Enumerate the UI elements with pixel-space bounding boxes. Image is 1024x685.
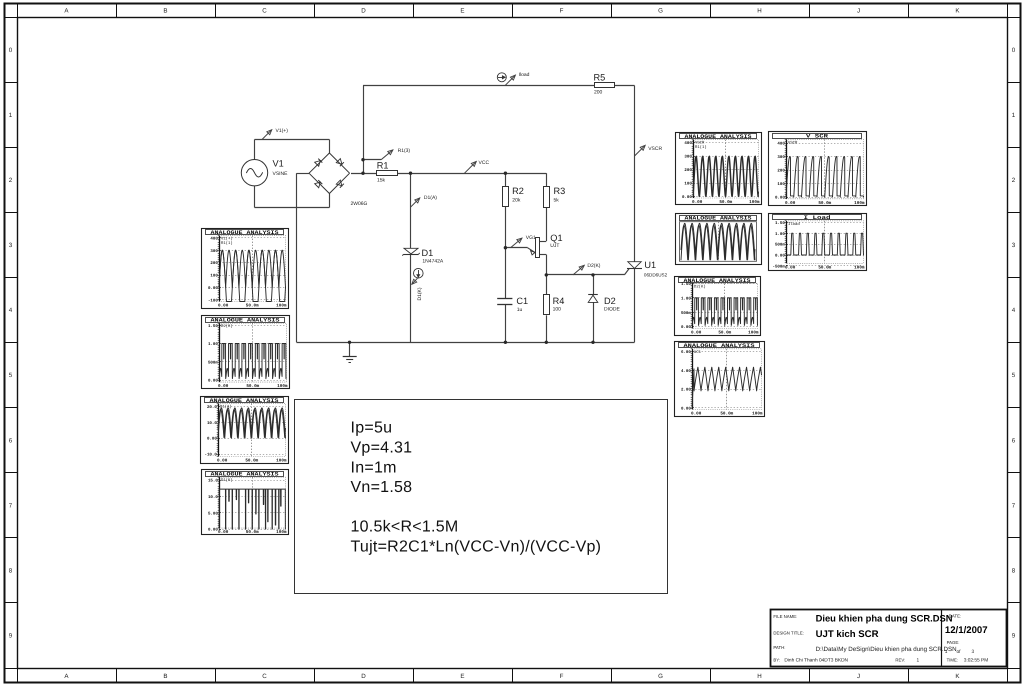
svg-text:-500m: -500m — [773, 265, 786, 270]
svg-text:0.00: 0.00 — [681, 406, 691, 411]
svg-text:Dieu khien pha dung SCR.DSN: Dieu khien pha dung SCR.DSN — [816, 613, 953, 624]
svg-text:100m: 100m — [752, 412, 763, 417]
svg-text:FILE NAME:: FILE NAME: — [773, 614, 797, 619]
svg-text:F: F — [560, 8, 564, 15]
svg-text:7: 7 — [1012, 502, 1016, 509]
svg-text:B: B — [163, 8, 167, 15]
svg-text:Iload: Iload — [788, 222, 800, 227]
svg-text:50.0m: 50.0m — [718, 331, 731, 336]
svg-text:100m: 100m — [277, 384, 288, 389]
svg-text:100m: 100m — [748, 331, 759, 336]
svg-text:100: 100 — [210, 274, 218, 279]
svg-text:9: 9 — [9, 633, 13, 640]
svg-text:ANALOGUE ANALYSIS: ANALOGUE ANALYSIS — [211, 230, 280, 236]
svg-text:50.0m: 50.0m — [246, 384, 259, 389]
svg-text:06DD6US2: 06DD6US2 — [644, 273, 668, 278]
svg-text:BY:: BY: — [773, 658, 780, 663]
svg-text:1.00: 1.00 — [681, 297, 691, 302]
svg-text:F: F — [560, 673, 564, 680]
svg-text:0.00: 0.00 — [692, 200, 703, 205]
svg-text:0.00: 0.00 — [218, 530, 229, 535]
svg-text:50.0m: 50.0m — [818, 265, 831, 270]
svg-text:400: 400 — [684, 141, 692, 146]
svg-text:U1: U1 — [644, 260, 656, 270]
svg-text:1: 1 — [917, 658, 920, 664]
svg-text:H: H — [757, 673, 761, 680]
svg-text:UJT: UJT — [550, 243, 559, 249]
svg-text:VSCR: VSCR — [788, 140, 798, 145]
svg-text:6.00: 6.00 — [681, 350, 691, 355]
svg-text:100m: 100m — [276, 304, 287, 309]
svg-text:G: G — [658, 673, 663, 680]
svg-text:In=1m: In=1m — [351, 459, 397, 476]
svg-text:-100: -100 — [208, 298, 218, 303]
svg-text:1.00: 1.00 — [208, 342, 218, 347]
svg-text:I Load: I Load — [804, 215, 831, 221]
svg-text:D2(K): D2(K) — [587, 263, 600, 269]
svg-text:G: G — [658, 8, 663, 15]
svg-text:0.00: 0.00 — [785, 265, 796, 270]
svg-text:2: 2 — [1012, 177, 1016, 184]
svg-text:1: 1 — [1012, 112, 1016, 119]
svg-text:100m: 100m — [276, 459, 287, 464]
svg-text:6: 6 — [1012, 437, 1016, 444]
svg-text:10.5k<R<1.5M: 10.5k<R<1.5M — [351, 519, 459, 536]
svg-text:100m: 100m — [749, 200, 760, 205]
svg-text:Iload: Iload — [519, 72, 530, 78]
svg-text:7: 7 — [9, 502, 13, 509]
svg-text:C: C — [262, 673, 267, 680]
svg-text:12/1/2007: 12/1/2007 — [945, 625, 988, 636]
svg-text:VSCR: VSCR — [648, 146, 662, 152]
svg-text:0: 0 — [1012, 47, 1016, 54]
svg-text:V1: V1 — [273, 159, 284, 169]
svg-text:1N4742A: 1N4742A — [422, 259, 444, 265]
svg-text:C1: C1 — [516, 296, 528, 306]
svg-text:0.00: 0.00 — [691, 412, 702, 417]
svg-text:D: D — [361, 8, 366, 15]
svg-text:50.0m: 50.0m — [245, 459, 258, 464]
svg-text:D2: D2 — [604, 296, 616, 306]
svg-text:3: 3 — [9, 242, 13, 249]
svg-text:Vp=4.31: Vp=4.31 — [351, 439, 413, 456]
svg-text:R1(1): R1(1) — [221, 241, 233, 246]
svg-text:VG1: VG1 — [526, 235, 536, 241]
svg-text:500m: 500m — [681, 311, 691, 316]
svg-text:0.00: 0.00 — [785, 201, 796, 206]
svg-text:Q1: Q1 — [550, 233, 562, 243]
svg-text:D1(K): D1(K) — [417, 287, 423, 300]
svg-text:0.00: 0.00 — [218, 384, 229, 389]
svg-text:5.00: 5.00 — [208, 511, 218, 516]
svg-text:4: 4 — [1012, 307, 1016, 314]
svg-text:2W06G: 2W06G — [351, 201, 368, 207]
svg-text:V1(+): V1(+) — [276, 128, 289, 134]
svg-text:2: 2 — [9, 177, 13, 184]
svg-text:9: 9 — [1012, 633, 1016, 640]
svg-text:Tujt=R2C1*Ln(VCC-Vn)/(VCC-Vp): Tujt=R2C1*Ln(VCC-Vn)/(VCC-Vp) — [351, 538, 602, 555]
svg-text:500m: 500m — [208, 360, 218, 365]
svg-text:300: 300 — [777, 155, 785, 160]
svg-text:DESIGN TITLE:: DESIGN TITLE: — [773, 630, 803, 635]
svg-text:J: J — [857, 8, 860, 15]
svg-text:R5: R5 — [594, 73, 606, 83]
svg-text:20k: 20k — [512, 198, 521, 204]
svg-text:D:\Data\My DeSign\Dieu khien p: D:\Data\My DeSign\Dieu khien pha dung SC… — [816, 646, 957, 653]
svg-text:H: H — [757, 8, 761, 15]
svg-text:0.00: 0.00 — [682, 195, 692, 200]
svg-text:1.50: 1.50 — [208, 324, 218, 329]
svg-text:D2(K): D2(K) — [694, 285, 706, 290]
svg-text:TIME:: TIME: — [947, 658, 958, 663]
svg-text:100: 100 — [684, 182, 692, 187]
svg-text:100m: 100m — [276, 530, 287, 535]
svg-text:3:02:55 PM: 3:02:55 PM — [964, 658, 989, 664]
svg-text:2.00: 2.00 — [681, 388, 691, 393]
svg-text:0.00: 0.00 — [208, 379, 218, 384]
svg-text:50.0m: 50.0m — [720, 412, 733, 417]
svg-text:0.00: 0.00 — [208, 528, 218, 533]
svg-text:ANALOGUE ANALYSIS: ANALOGUE ANALYSIS — [210, 398, 280, 404]
svg-text:5: 5 — [1012, 372, 1016, 379]
svg-text:6: 6 — [9, 437, 13, 444]
svg-text:0.00: 0.00 — [207, 437, 217, 442]
svg-text:50.0m: 50.0m — [719, 200, 732, 205]
svg-text:ANALOGUE ANALYSIS: ANALOGUE ANALYSIS — [685, 134, 753, 140]
svg-text:D2(K): D2(K) — [221, 324, 233, 329]
svg-text:200: 200 — [594, 89, 603, 95]
svg-text:0.00: 0.00 — [775, 196, 785, 201]
svg-text:of: of — [957, 649, 962, 655]
svg-text:0.00: 0.00 — [681, 325, 691, 330]
svg-text:VCC: VCC — [479, 160, 490, 166]
svg-text:V1(+): V1(+) — [221, 237, 233, 242]
svg-text:50.0m: 50.0m — [246, 530, 259, 535]
svg-text:0.00: 0.00 — [691, 331, 702, 336]
svg-text:15k: 15k — [377, 177, 386, 183]
svg-text:J: J — [857, 673, 860, 680]
svg-text:10.0: 10.0 — [208, 495, 218, 500]
svg-text:E: E — [460, 8, 464, 15]
svg-text:ANALOGUE ANALYSIS: ANALOGUE ANALYSIS — [211, 318, 281, 324]
svg-text:D1(A): D1(A) — [424, 195, 437, 201]
svg-text:1.50: 1.50 — [681, 282, 691, 287]
svg-text:VSCR: VSCR — [695, 141, 705, 146]
svg-text:15.0: 15.0 — [208, 479, 218, 484]
svg-text:E: E — [460, 673, 464, 680]
svg-text:R4: R4 — [553, 296, 565, 306]
svg-text:50.0m: 50.0m — [246, 304, 259, 309]
svg-text:100m: 100m — [854, 265, 865, 270]
svg-text:1.00: 1.00 — [775, 232, 785, 237]
svg-text:R1: R1 — [377, 161, 389, 171]
svg-text:R1(1): R1(1) — [695, 145, 707, 150]
svg-text:-10.0: -10.0 — [205, 453, 218, 458]
svg-text:300: 300 — [210, 249, 218, 254]
svg-text:200: 200 — [777, 169, 785, 174]
svg-text:D1(K): D1(K) — [221, 478, 233, 483]
svg-text:3: 3 — [972, 649, 975, 655]
svg-text:ANALOGUE ANALYSIS: ANALOGUE ANALYSIS — [684, 278, 752, 284]
svg-text:500m: 500m — [775, 243, 785, 248]
svg-text:R2: R2 — [512, 186, 524, 196]
svg-text:4.00: 4.00 — [681, 369, 691, 374]
svg-text:ANALOGUE ANALYSIS: ANALOGUE ANALYSIS — [685, 216, 753, 222]
svg-text:10.0: 10.0 — [207, 421, 217, 426]
svg-text:3: 3 — [1012, 242, 1016, 249]
svg-text:Vn=1.58: Vn=1.58 — [351, 479, 413, 496]
svg-text:1: 1 — [945, 649, 948, 655]
svg-text:0.00: 0.00 — [218, 304, 229, 309]
svg-text:20.0: 20.0 — [207, 405, 217, 410]
svg-text:UJT kich SCR: UJT kich SCR — [816, 629, 879, 640]
svg-text:C: C — [262, 8, 267, 15]
svg-text:VSINE: VSINE — [273, 171, 289, 177]
svg-text:8: 8 — [9, 568, 13, 575]
svg-text:1u: 1u — [517, 307, 523, 313]
svg-text:5k: 5k — [554, 198, 560, 204]
svg-text:5: 5 — [9, 372, 13, 379]
svg-text:R3: R3 — [554, 186, 566, 196]
svg-text:0: 0 — [9, 47, 13, 54]
svg-text:PATH:: PATH: — [773, 645, 785, 650]
svg-text:300: 300 — [684, 155, 692, 160]
svg-text:0.00: 0.00 — [217, 459, 228, 464]
svg-text:D1: D1 — [422, 248, 434, 258]
svg-text:ANALOGUE ANALYSIS: ANALOGUE ANALYSIS — [211, 472, 280, 478]
svg-text:R1(3): R1(3) — [398, 148, 411, 154]
svg-text:200: 200 — [684, 168, 692, 173]
svg-text:REV:: REV: — [895, 658, 905, 663]
svg-text:V SCR: V SCR — [806, 134, 829, 140]
svg-text:200: 200 — [210, 261, 218, 266]
svg-text:D: D — [361, 673, 366, 680]
svg-text:1.50: 1.50 — [775, 221, 785, 226]
svg-text:0.00: 0.00 — [775, 254, 785, 259]
svg-text:400: 400 — [777, 142, 785, 147]
svg-text:B: B — [163, 673, 167, 680]
svg-text:PAGE:: PAGE: — [947, 640, 960, 645]
svg-text:50.0m: 50.0m — [818, 201, 831, 206]
svg-text:DIODE: DIODE — [604, 307, 621, 313]
svg-text:100m: 100m — [854, 201, 865, 206]
svg-text:400: 400 — [210, 236, 218, 241]
svg-text:4: 4 — [9, 307, 13, 314]
svg-text:ANALOGUE ANALYSIS: ANALOGUE ANALYSIS — [684, 343, 756, 349]
svg-text:Dinh Chi Thanh 04DT3 BKDN: Dinh Chi Thanh 04DT3 BKDN — [784, 658, 848, 664]
svg-text:Ip=5u: Ip=5u — [351, 420, 393, 437]
svg-text:8: 8 — [1012, 568, 1016, 575]
svg-text:100: 100 — [777, 182, 785, 187]
svg-text:100: 100 — [553, 307, 562, 313]
svg-text:UC1: UC1 — [694, 350, 702, 355]
svg-text:1: 1 — [9, 112, 13, 119]
svg-text:0.00: 0.00 — [208, 286, 218, 291]
